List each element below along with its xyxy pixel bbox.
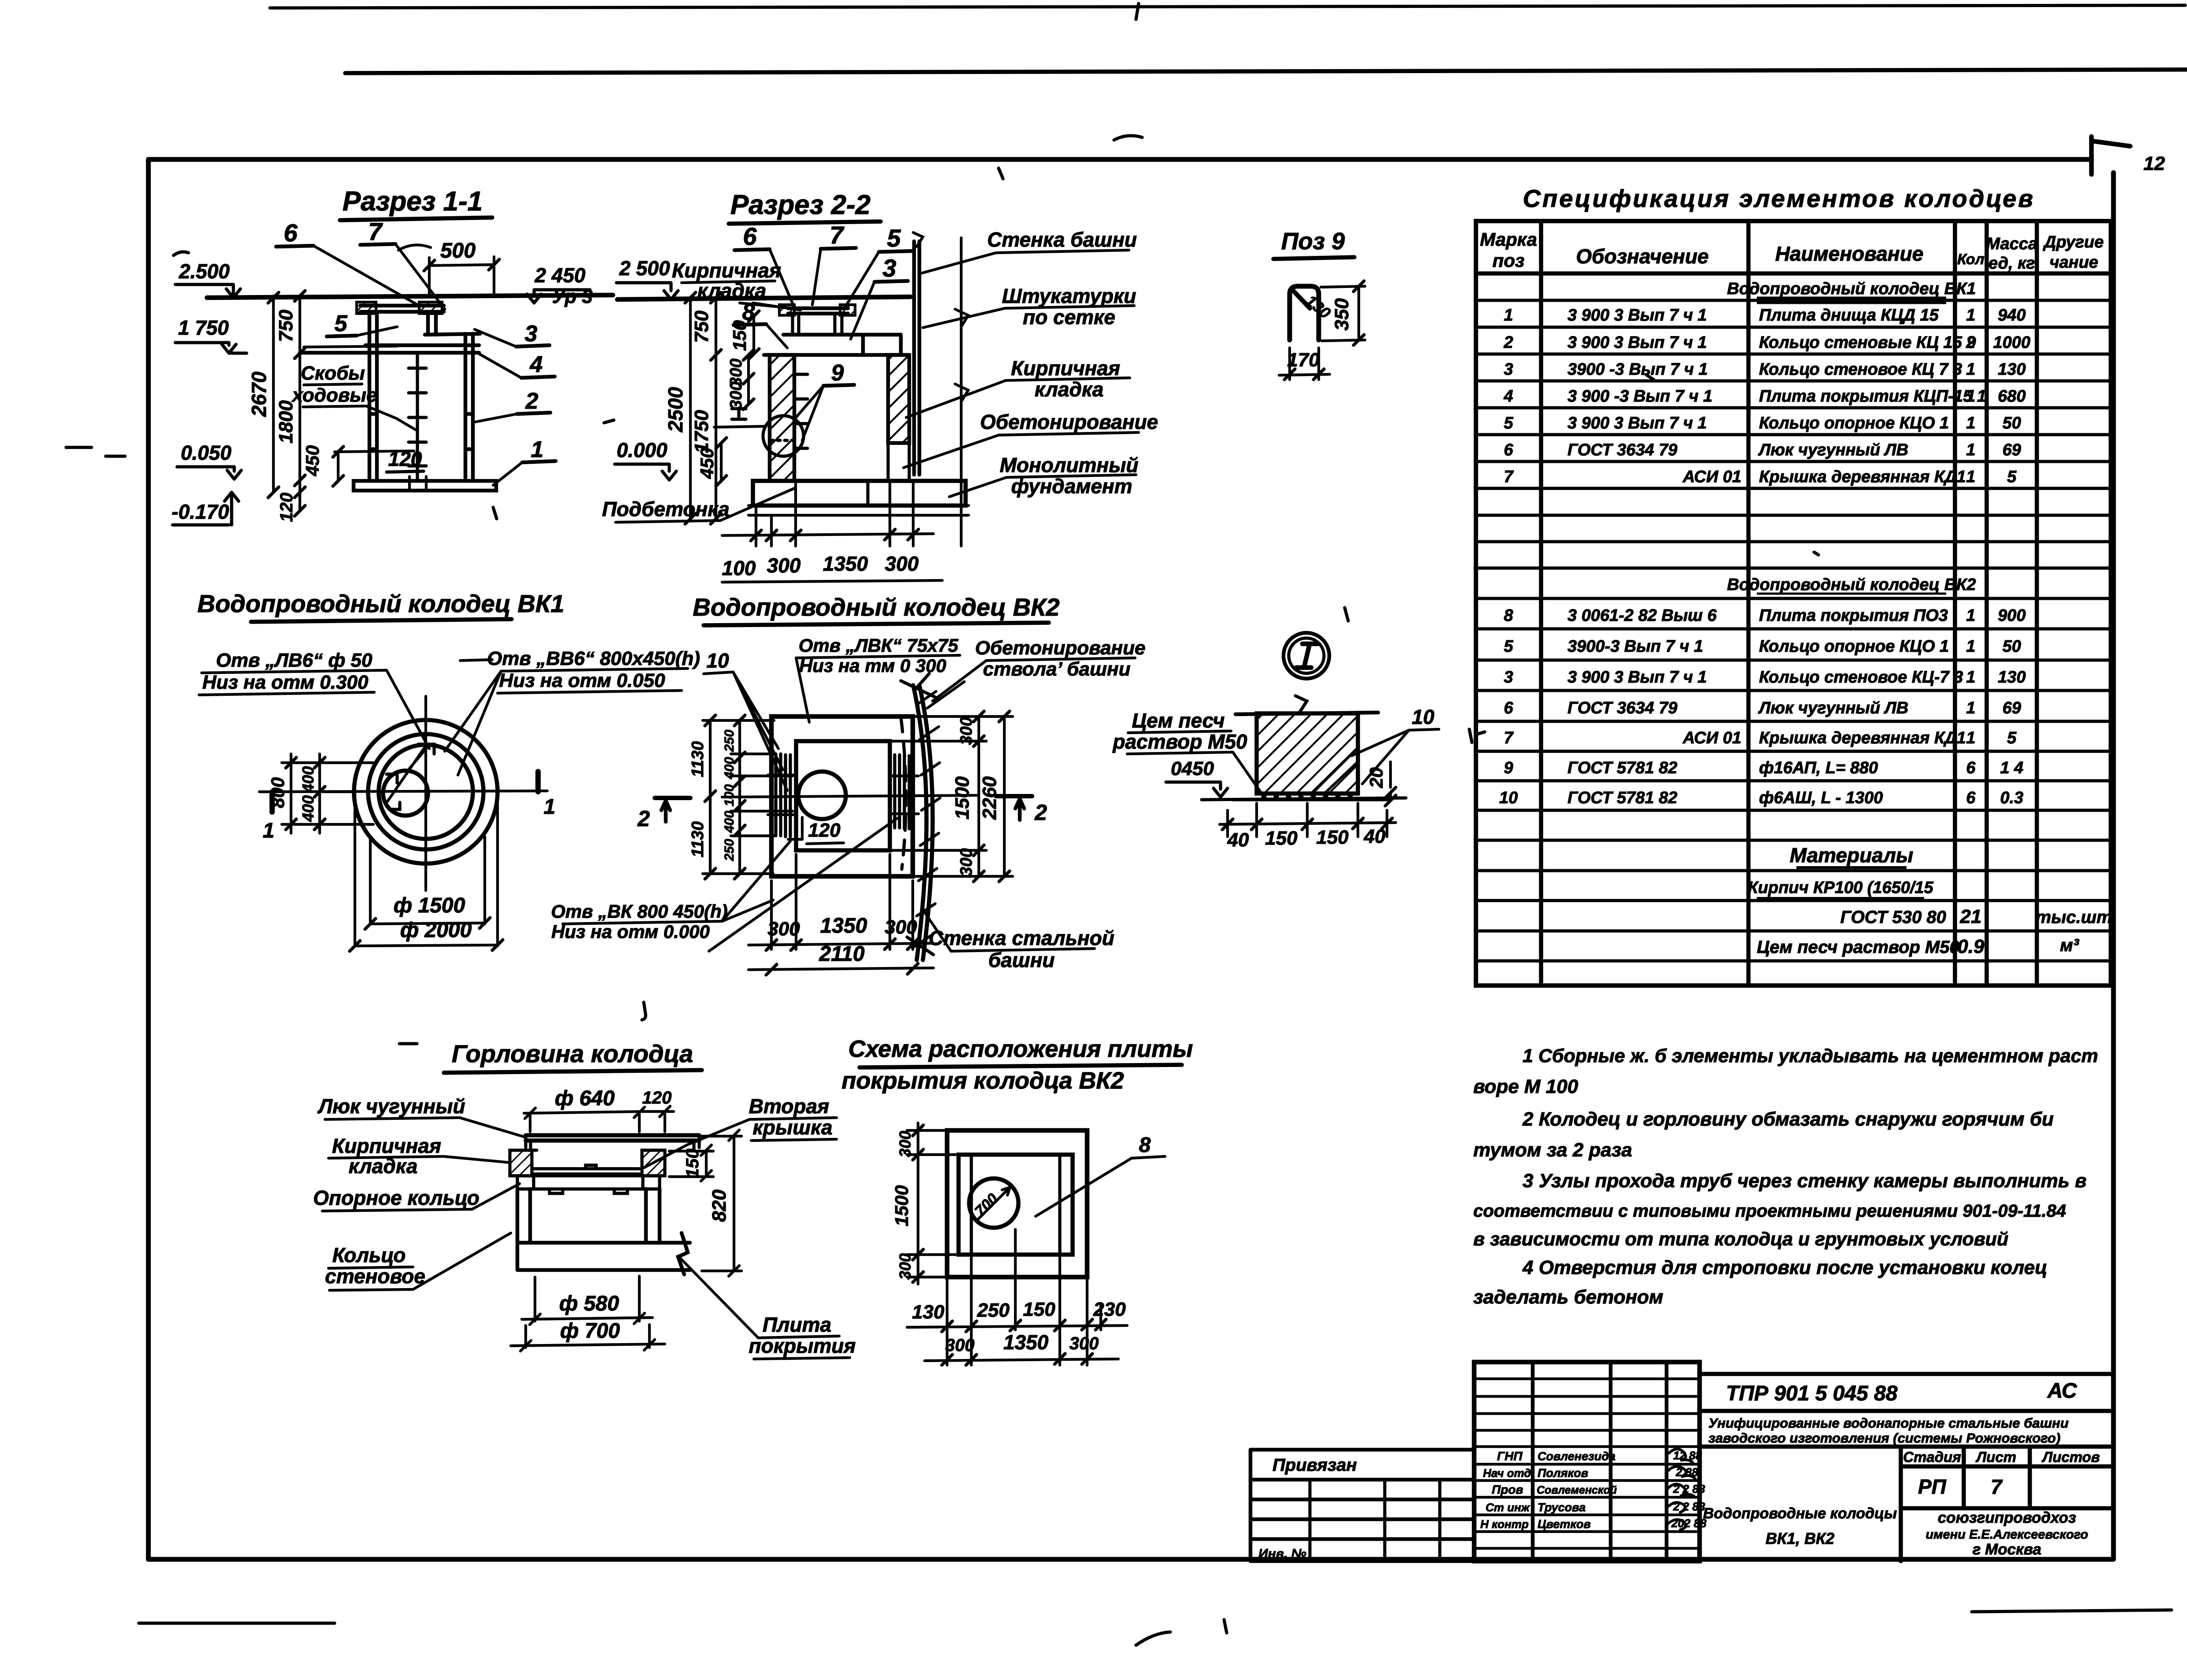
dim chain 300 300 xyxy=(747,355,750,404)
svg-text:Унифицированные водонапорные: Унифицированные водонапорные стальные ба… xyxy=(1708,1415,2069,1431)
svg-text:2110: 2110 xyxy=(819,942,865,966)
dim chain 2670 xyxy=(272,296,275,492)
svg-text:АС: АС xyxy=(2047,1379,2077,1403)
elevation mark 2 500 xyxy=(619,257,670,280)
chamber right wall hatched xyxy=(888,355,909,443)
elevation 0.450 xyxy=(1171,758,1214,779)
bottom dim line xyxy=(722,534,933,535)
svg-text:Наименование: Наименование xyxy=(1775,242,1924,265)
leader number 5 xyxy=(887,224,901,252)
svg-text:3: 3 xyxy=(1504,668,1513,687)
chamber right wall xyxy=(465,334,473,481)
leader number 7 xyxy=(368,218,383,245)
break zigzag on top xyxy=(1295,696,1307,713)
title shema line1 xyxy=(848,1036,1193,1062)
stamp texts xyxy=(1258,1379,2100,1561)
svg-text:1000: 1000 xyxy=(1993,333,2031,352)
svg-text:2 500: 2 500 xyxy=(619,257,670,280)
top arrow on tower xyxy=(901,674,936,955)
svg-text:750: 750 xyxy=(275,310,297,342)
svg-text:Плита днища КЦД 15: Плита днища КЦД 15 xyxy=(1759,306,1939,325)
elevation mark 2 450 Ur 3 xyxy=(534,264,593,307)
dim 120 xyxy=(788,817,802,839)
signature table grid xyxy=(1474,1362,1700,1561)
svg-text:Люк чугунный ЛВ: Люк чугунный ЛВ xyxy=(1758,699,1908,717)
svg-text:Пров: Пров xyxy=(1492,1483,1523,1496)
dim 20 right xyxy=(1389,794,1392,800)
svg-text:4: 4 xyxy=(530,352,543,377)
row lines xyxy=(1476,300,2111,961)
top line extended xyxy=(1235,713,1378,714)
svg-text:3 0061-2 82 Выш 6: 3 0061-2 82 Выш 6 xyxy=(1567,606,1717,625)
section mark 1 left xyxy=(269,792,275,812)
dim 120 slab xyxy=(388,447,422,470)
svg-text:3 900 3 Вып 7 ч 1: 3 900 3 Вып 7 ч 1 xyxy=(1567,333,1707,352)
title VK2 xyxy=(693,593,1059,621)
scan squiggle above 500 xyxy=(398,245,431,250)
dim 820 right xyxy=(733,1135,735,1270)
neck walls xyxy=(793,314,842,335)
svg-text:2: 2 xyxy=(1034,800,1047,825)
svg-text:2: 2 xyxy=(1966,333,1975,352)
svg-text:0.000: 0.000 xyxy=(616,439,668,462)
neck cover plate (lid) xyxy=(360,306,444,312)
svg-text:0.3: 0.3 xyxy=(2000,789,2024,807)
bottom dim row1 130 250 150 230 xyxy=(907,1326,1127,1327)
signatures squiggles xyxy=(1669,1449,1693,1464)
svg-text:250: 250 xyxy=(977,1300,1010,1321)
svg-text:башни: башни xyxy=(988,949,1055,971)
drawing frame xyxy=(148,159,2113,1559)
rebar U shape xyxy=(1290,286,1319,340)
leader number 3 xyxy=(882,254,896,282)
svg-text:5: 5 xyxy=(2007,729,2017,747)
svg-text:2 Колодец и горловину обм: 2 Колодец и горловину обмазать снаружи г… xyxy=(1522,1108,2054,1130)
svg-text:680: 680 xyxy=(1998,387,2025,406)
svg-text:Водопроводный колодец ВК1: Водопроводный колодец ВК1 xyxy=(197,590,564,617)
svg-text:ф16АП, L= 880: ф16АП, L= 880 xyxy=(1759,759,1878,777)
table header texts xyxy=(1480,229,2104,273)
svg-text:3 900 3 Вып 7 ч 1: 3 900 3 Вып 7 ч 1 xyxy=(1567,668,1707,687)
svg-text:Цем песч: Цем песч xyxy=(1132,709,1225,732)
svg-text:1 750: 1 750 xyxy=(178,316,229,339)
svg-text:Лист: Лист xyxy=(1976,1449,2017,1465)
title underline xyxy=(859,1065,1182,1067)
scan artifact top edge line xyxy=(270,5,2185,8)
svg-text:ГНП: ГНП xyxy=(1497,1449,1523,1463)
rebar hatch left xyxy=(776,754,790,837)
svg-text:6: 6 xyxy=(1504,441,1513,459)
svg-text:Кирпич КР100 (1650/15: Кирпич КР100 (1650/15 xyxy=(1748,879,1933,897)
svg-text:Горловина колодца: Горловина колодца xyxy=(452,1040,693,1067)
svg-text:400: 400 xyxy=(299,795,317,822)
lower dim baseline xyxy=(722,580,942,582)
left dim chain 1130/1130 xyxy=(709,720,712,874)
svg-text:Отв „ЛВ6“ ф 50: Отв „ЛВ6“ ф 50 xyxy=(216,650,372,671)
svg-text:Трусова: Трусова xyxy=(1538,1501,1586,1514)
svg-text:ф 580: ф 580 xyxy=(559,1292,619,1315)
table section header VK2 xyxy=(1727,576,1976,594)
bottom-left scan line xyxy=(139,1621,335,1625)
svg-text:150: 150 xyxy=(683,1149,702,1178)
bottom slab plita dnishcha xyxy=(354,481,496,491)
small hole marker on neck xyxy=(387,774,400,809)
svg-text:Плита: Плита xyxy=(763,1313,831,1336)
scan dash xyxy=(460,660,492,661)
svg-text:7: 7 xyxy=(830,221,845,249)
svg-text:Водопроводные колодцы: Водопроводные колодцы xyxy=(1703,1505,1897,1522)
neck brick right xyxy=(840,305,855,315)
svg-text:ГОСТ 530 80: ГОСТ 530 80 xyxy=(1840,908,1946,927)
rebar diagonal in block xyxy=(1312,749,1358,793)
label monolitnyi fundament xyxy=(999,454,1138,498)
dim 500 top xyxy=(440,239,476,262)
svg-text:ГОСТ 3634 79: ГОСТ 3634 79 xyxy=(1567,441,1678,459)
materials section xyxy=(1748,844,2112,957)
svg-text:1500: 1500 xyxy=(952,776,973,820)
column lines xyxy=(1541,221,2037,986)
svg-text:3: 3 xyxy=(1504,360,1513,379)
svg-text:300: 300 xyxy=(896,1131,914,1157)
svg-text:ф6АШ, L - 1300: ф6АШ, L - 1300 xyxy=(1759,789,1883,807)
neck circle xyxy=(383,771,428,816)
svg-text:0.050: 0.050 xyxy=(181,441,232,464)
brick block left xyxy=(510,1150,532,1176)
svg-text:ед, кг: ед, кг xyxy=(1988,254,2035,273)
svg-text:Совленезида: Совленезида xyxy=(1538,1450,1615,1463)
pipe circle xyxy=(798,772,846,819)
neck right wall xyxy=(428,312,436,335)
label 1 xyxy=(531,437,544,462)
rebar cross ticks xyxy=(768,775,918,815)
outer excavation line with breaks xyxy=(955,238,968,546)
svg-text:Листов: Листов xyxy=(2042,1449,2100,1465)
svg-text:ф 1500: ф 1500 xyxy=(394,894,465,917)
inner ring circle xyxy=(379,745,473,839)
left dim chain xyxy=(907,1130,955,1277)
hole marker rect xyxy=(418,744,434,754)
label koltso stenovoe xyxy=(325,1244,425,1288)
svg-text:2260: 2260 xyxy=(979,776,1000,820)
dim 450 left xyxy=(720,443,723,481)
elevation mark 2.500 xyxy=(178,260,230,283)
svg-text:Низ на отм 0.300: Низ на отм 0.300 xyxy=(203,672,369,693)
centerline vertical xyxy=(424,696,427,890)
tower wall (stenka bashni) xyxy=(914,241,919,475)
svg-text:50: 50 xyxy=(2003,414,2021,432)
mortar dots xyxy=(1263,795,1351,798)
svg-text:3: 3 xyxy=(882,254,896,282)
svg-text:5: 5 xyxy=(2007,468,2017,486)
svg-text:250: 250 xyxy=(722,839,737,861)
svg-text:940: 940 xyxy=(1998,306,2025,325)
title gorlovina xyxy=(452,1040,693,1067)
svg-text:1: 1 xyxy=(1966,441,1975,459)
svg-text:Монолитный: Монолитный xyxy=(999,454,1138,476)
svg-text:300: 300 xyxy=(945,1336,975,1355)
svg-text:3 900 3 Вып 7 ч 1: 3 900 3 Вып 7 ч 1 xyxy=(1567,414,1707,432)
label 10 with fan leaders xyxy=(706,649,729,672)
rebar hatch right xyxy=(895,755,909,829)
elevation 0.000 xyxy=(616,439,668,462)
svg-text:Кирпичная: Кирпичная xyxy=(332,1134,441,1157)
svg-text:Масса: Масса xyxy=(1986,235,2038,253)
centerline xyxy=(722,795,979,797)
svg-text:4 Отверстия для строповки: 4 Отверстия для строповки после установк… xyxy=(1522,1257,2047,1278)
bottom-right scan line xyxy=(1972,1610,2172,1612)
svg-text:АСИ 01: АСИ 01 xyxy=(1682,729,1741,747)
centerline horizontal xyxy=(259,791,547,792)
svg-text:Поляков: Поляков xyxy=(1538,1466,1588,1480)
svg-text:0.9: 0.9 xyxy=(1957,936,1984,957)
svg-text:союзгипроводхоз: союзгипроводхоз xyxy=(1938,1509,2076,1526)
title Razrez 2-2 xyxy=(730,190,870,220)
svg-text:ф 700: ф 700 xyxy=(560,1319,620,1343)
svg-text:5: 5 xyxy=(887,224,901,252)
svg-text:130: 130 xyxy=(1998,360,2025,379)
svg-text:Водопроводный колодец ВК2: Водопроводный колодец ВК2 xyxy=(693,593,1059,621)
sheet number box xyxy=(2091,137,2130,174)
tower shell curve inner xyxy=(913,685,926,960)
svg-text:7: 7 xyxy=(368,218,383,245)
svg-text:20: 20 xyxy=(1366,768,1387,789)
scan artifact second line xyxy=(345,70,2187,73)
label kirpichnaya kladka right xyxy=(1011,357,1120,401)
svg-text:150: 150 xyxy=(729,320,750,351)
svg-text:Привязан: Привязан xyxy=(1272,1455,1357,1475)
title underline xyxy=(704,623,1049,625)
hole circle xyxy=(969,1178,1018,1228)
pit outline below xyxy=(355,788,498,946)
svg-text:9: 9 xyxy=(831,360,844,386)
left dim chain 250 400 100 xyxy=(738,720,741,874)
svg-text:Кольцо: Кольцо xyxy=(332,1244,406,1266)
ladder rungs section 2-2 xyxy=(794,374,808,448)
svg-text:соответствии с типовыми про: соответствии с типовыми проектными решен… xyxy=(1473,1201,2066,1221)
inner double edge lines xyxy=(971,1155,1060,1255)
title underline xyxy=(1273,257,1354,259)
label obetonirovanie xyxy=(980,410,1158,433)
svg-text:100: 100 xyxy=(722,784,737,806)
scan artifact tick xyxy=(1136,4,1139,19)
svg-text:1130: 1130 xyxy=(689,741,707,777)
svg-text:230: 230 xyxy=(1093,1299,1126,1320)
dim 800 xyxy=(290,754,292,833)
svg-text:1: 1 xyxy=(1966,306,1975,325)
svg-text:Кольцо стеновое КЦ-7 3: Кольцо стеновое КЦ-7 3 xyxy=(1759,668,1963,687)
svg-text:7: 7 xyxy=(1991,1475,2003,1498)
label tsem pesch rastvor M50 xyxy=(1112,709,1247,753)
svg-text:Отв „ВК 800 450(h): Отв „ВК 800 450(h) xyxy=(551,901,727,922)
svg-text:Инв. №: Инв. № xyxy=(1258,1547,1306,1561)
svg-text:чание: чание xyxy=(2050,253,2098,272)
title underline xyxy=(444,1070,702,1073)
header bottom line xyxy=(1476,271,2111,276)
svg-text:Водопроводный колодец ВК2: Водопроводный колодец ВК2 xyxy=(1727,576,1976,594)
svg-text:Совлеменской: Совлеменской xyxy=(1537,1484,1617,1496)
svg-text:ВК1, ВК2: ВК1, ВК2 xyxy=(1766,1529,1834,1547)
top slab of chamber xyxy=(300,345,479,353)
svg-text:6: 6 xyxy=(1966,759,1976,777)
svg-text:69: 69 xyxy=(2003,441,2021,459)
leader number 6 xyxy=(743,222,757,250)
bottom dim 2110 xyxy=(749,968,933,970)
svg-text:1350: 1350 xyxy=(820,914,867,938)
svg-text:ствола’ башни: ствола’ башни xyxy=(983,658,1131,680)
middle ring circle xyxy=(368,734,483,849)
monolithic foundation xyxy=(753,481,966,506)
svg-text:Другие: Другие xyxy=(2043,233,2103,251)
dim 120 top xyxy=(642,1088,672,1108)
ground line xyxy=(617,297,911,299)
svg-text:3900 -3 Вып 7 ч 1: 3900 -3 Вып 7 ч 1 xyxy=(1567,360,1708,379)
svg-text:120: 120 xyxy=(808,820,841,841)
extension lines left xyxy=(703,720,793,874)
svg-text:300: 300 xyxy=(767,554,801,577)
right dim 2260 xyxy=(1003,716,1006,876)
svg-text:120: 120 xyxy=(388,447,422,470)
svg-text:Стадия: Стадия xyxy=(1903,1449,1961,1465)
svg-text:-0.170: -0.170 xyxy=(172,500,229,523)
label podbetonka xyxy=(602,498,729,521)
diagonal leader inside circle xyxy=(387,745,426,801)
label kirpichnaya kladka left xyxy=(672,259,781,302)
outer plate square xyxy=(947,1130,1087,1277)
table rows group 1 xyxy=(1503,306,2030,486)
svg-text:г Москва: г Москва xyxy=(1973,1541,2041,1558)
svg-text:350: 350 xyxy=(1331,298,1353,331)
label obetonirovanie stvola bashni xyxy=(975,637,1146,680)
tower wall break mark xyxy=(913,233,923,247)
svg-text:воре М 100: воре М 100 xyxy=(1473,1076,1578,1097)
svg-text:1: 1 xyxy=(1966,637,1975,656)
dim 150 neck xyxy=(752,316,755,354)
brick block right of lid xyxy=(419,302,442,314)
svg-text:Обетонирование: Обетонирование xyxy=(975,637,1146,659)
svg-text:120: 120 xyxy=(642,1088,672,1108)
wall ring (koltso stenovoe) xyxy=(517,1189,660,1243)
svg-text:1750: 1750 xyxy=(691,410,712,453)
svg-text:2 2 88: 2 2 88 xyxy=(1673,1500,1705,1513)
label 4 xyxy=(530,352,543,377)
label plita pokrytiya xyxy=(749,1313,856,1357)
svg-text:Схема расположения плиты: Схема расположения плиты xyxy=(848,1036,1193,1062)
neck cover xyxy=(788,308,848,314)
label 2 xyxy=(525,388,538,414)
svg-text:300: 300 xyxy=(767,918,800,940)
outer ring circle xyxy=(354,720,498,864)
svg-text:300: 300 xyxy=(957,848,976,876)
svg-text:Крышка деревянная КД1: Крышка деревянная КД1 xyxy=(1759,729,1966,747)
svg-text:4: 4 xyxy=(1503,387,1513,406)
svg-text:м³: м³ xyxy=(2060,936,2080,955)
svg-text:1800: 1800 xyxy=(275,400,297,443)
svg-text:Люк чугунный: Люк чугунный xyxy=(317,1095,465,1118)
dim chain 2500 xyxy=(689,298,692,519)
elevation mark 1 750 xyxy=(178,316,229,339)
svg-text:Кольцо стеновое КЦ 7 3: Кольцо стеновое КЦ 7 3 xyxy=(1759,360,1962,379)
ground line under detail xyxy=(1202,798,1406,800)
svg-text:Цем песч раствор М50: Цем песч раствор М50 xyxy=(1757,938,1959,957)
svg-text:заделать бетоном: заделать бетоном xyxy=(1473,1286,1663,1308)
obetonirovanie zone below right wall xyxy=(888,443,909,481)
svg-text:Плита покрытия КЦП-15 1: Плита покрытия КЦП-15 1 xyxy=(1759,387,1986,406)
inner wall lines xyxy=(794,355,909,481)
svg-text:6: 6 xyxy=(1966,789,1976,807)
bottom dims 300 1350 300 xyxy=(771,854,913,949)
svg-text:Плита покрытия ПО3: Плита покрытия ПО3 xyxy=(1759,606,1948,625)
svg-text:Штукатурки: Штукатурки xyxy=(1002,284,1136,307)
svg-text:Обозначение: Обозначение xyxy=(1576,245,1708,268)
ground level line xyxy=(207,295,613,298)
section mark 1 right xyxy=(535,772,541,792)
svg-text:РП: РП xyxy=(1918,1475,1947,1498)
svg-text:Кол: Кол xyxy=(1957,251,1984,268)
dim chain 750 1750 xyxy=(715,298,717,519)
svg-text:1 Сборные ж. б элементы укла: 1 Сборные ж. б элементы укладывать на це… xyxy=(1523,1045,2098,1067)
svg-text:1: 1 xyxy=(1966,468,1975,486)
lid (cast iron cover) xyxy=(526,1135,699,1141)
right dim 300/1500/300 xyxy=(977,716,980,876)
tower shell hatch xyxy=(914,691,940,947)
svg-text:ГОСТ 5781 82: ГОСТ 5781 82 xyxy=(1567,789,1678,807)
svg-text:21: 21 xyxy=(1960,906,1982,927)
svg-text:Обетонирование: Обетонирование xyxy=(980,410,1158,433)
svg-text:3900-3 Вып 7 ч 1: 3900-3 Вып 7 ч 1 xyxy=(1567,637,1703,656)
svg-text:5: 5 xyxy=(1504,414,1513,432)
svg-text:900: 900 xyxy=(1998,606,2025,625)
label opornoe koltso xyxy=(313,1186,479,1209)
leader number 6 xyxy=(284,219,298,247)
svg-text:ТПР 901 5 045 88: ТПР 901 5 045 88 xyxy=(1726,1382,1898,1405)
svg-text:Спецификация элементов коло: Спецификация элементов колодцев xyxy=(1523,185,2035,212)
svg-text:тыс.шт: тыс.шт xyxy=(2036,908,2112,927)
label otv VK 800 450 bottom left xyxy=(551,901,727,942)
svg-text:8: 8 xyxy=(1139,1134,1151,1157)
svg-text:по сетке: по сетке xyxy=(1023,306,1115,329)
title underline xyxy=(251,619,512,622)
svg-text:1: 1 xyxy=(1966,668,1975,687)
rebar bend hatch 130 xyxy=(1292,290,1310,308)
dim 450 xyxy=(337,452,339,481)
dim 150 left xyxy=(752,315,755,318)
svg-text:Нач отд: Нач отд xyxy=(1483,1466,1531,1480)
svg-text:1: 1 xyxy=(1966,360,1975,379)
svg-text:1: 1 xyxy=(544,795,556,819)
svg-text:1350: 1350 xyxy=(1003,1331,1049,1354)
svg-text:Поз 9: Поз 9 xyxy=(1281,228,1345,255)
svg-text:1500: 1500 xyxy=(891,1185,912,1226)
svg-text:1: 1 xyxy=(1504,306,1513,325)
svg-text:1 4: 1 4 xyxy=(2000,759,2024,777)
extension lines right xyxy=(892,716,1013,876)
svg-text:170: 170 xyxy=(1287,349,1320,371)
dim f2000 xyxy=(400,919,472,942)
svg-text:2: 2 xyxy=(637,806,650,831)
svg-text:Разрез 1-1: Разрез 1-1 xyxy=(343,186,483,217)
svg-text:6: 6 xyxy=(1504,699,1513,717)
svg-text:7: 7 xyxy=(1504,468,1514,486)
svg-text:2500: 2500 xyxy=(664,387,687,432)
svg-text:0450: 0450 xyxy=(1171,758,1214,779)
svg-text:Крышка деревянная КД1: Крышка деревянная КД1 xyxy=(1759,468,1966,486)
svg-text:1350: 1350 xyxy=(823,552,868,575)
inner chamber square xyxy=(796,741,890,850)
elevation mark -0.170 xyxy=(172,500,229,523)
dim 150 right xyxy=(705,1150,708,1176)
bottom dim 40 150 150 40 xyxy=(1220,823,1396,824)
section mark 2 left xyxy=(655,796,690,800)
